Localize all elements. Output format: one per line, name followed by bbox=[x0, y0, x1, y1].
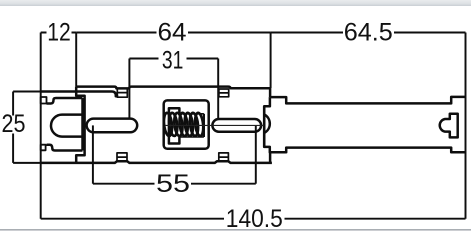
bracket top step to top edge bbox=[47, 98, 83, 104]
spring bore lines bbox=[179, 114, 204, 137]
svg-text:64: 64 bbox=[158, 19, 187, 47]
right arm outline bbox=[264, 97, 465, 152]
dim line 140.5 (y=218.7) bbox=[41, 218, 466, 220]
dim line 25 (vertical x=13.1) bbox=[12, 92, 14, 163]
spring housing box bbox=[164, 100, 209, 148]
spring coils bbox=[163, 112, 204, 136]
clip top-left rect bbox=[117, 88, 127, 97]
spring cup (C-section) bbox=[169, 108, 180, 143]
dim line 12 (top, y=32.5) bbox=[41, 32, 76, 34]
oval slot 1 (stadium) bbox=[87, 119, 138, 133]
clip bottom-right rect bbox=[219, 153, 229, 161]
extension line x=270.6 (64/64.5 boundary) bbox=[270, 33, 272, 89]
housing top edge y=91.5 with rounded right corner down bbox=[41, 92, 119, 97]
svg-text:31: 31 bbox=[162, 47, 184, 75]
svg-text:25: 25 bbox=[2, 110, 26, 138]
svg-text:12: 12 bbox=[47, 18, 71, 46]
extension 55 right x=255.8 (from oval2 cap centre) bbox=[255, 125, 257, 183]
svg-text:140.5: 140.5 bbox=[226, 205, 283, 232]
svg-text:64.5: 64.5 bbox=[344, 19, 393, 47]
extension 31 right x=218.2 bbox=[217, 59, 219, 119]
bracket bottom step bbox=[47, 145, 83, 151]
extension line x=76.2 (12/64 boundary) bbox=[75, 33, 77, 87]
slider right edge x=270.1 bbox=[269, 88, 272, 163]
extension 55 left x=92.9 (from oval1 cap centre) bbox=[92, 125, 94, 183]
dim line 55 (y=183.7) bbox=[93, 183, 256, 185]
bracket top tab bbox=[41, 97, 47, 104]
pin centreline bbox=[165, 124, 264, 126]
extension 25 top y=91.5 bbox=[13, 91, 41, 93]
clip bottom-left rect bbox=[117, 153, 127, 161]
dim line 31 (y=58.5) bbox=[129, 58, 218, 60]
bracket bottom tab bbox=[41, 145, 46, 151]
bottom grey rule bbox=[0, 229, 471, 231]
spring right seat plate bbox=[203, 114, 205, 137]
bracket right bar bbox=[81, 98, 84, 151]
extension 25 bottom y=162.9 bbox=[13, 162, 41, 164]
slider left edge with step bbox=[76, 87, 84, 163]
dim line 64.5 (top, y=32.5) bbox=[271, 32, 466, 34]
right-end keyhole bbox=[440, 114, 458, 138]
oval slot 2 (stadium) bbox=[212, 119, 261, 132]
dim line 64 (top, y=32.5) bbox=[76, 32, 270, 34]
right arm D-bump (bulge right) bbox=[264, 106, 270, 147]
housing bottom edge y=162.9 full with clip bumps bbox=[41, 161, 272, 163]
clip top-right rect bbox=[219, 89, 229, 97]
extension line right x=465.5 (64.5 right, down to 140.5) bbox=[465, 33, 467, 219]
slider top edge y=86.6 with clip dips and right step bbox=[76, 87, 270, 89]
extension line left x=40.7 (also housing left edge, runs to 140.5 line) bbox=[40, 33, 42, 219]
extension 31 left x=129.4 bbox=[128, 59, 130, 119]
bracket D-bump (semicircle left) bbox=[51, 115, 83, 137]
svg-text:55: 55 bbox=[156, 170, 190, 198]
